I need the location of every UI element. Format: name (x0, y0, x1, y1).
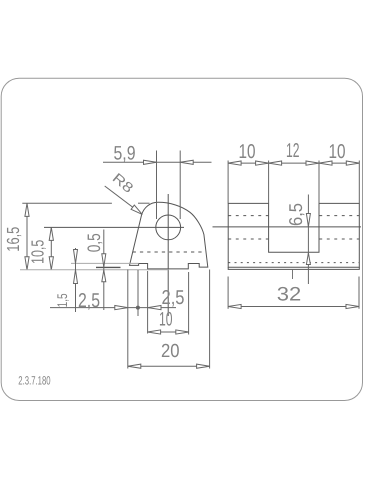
dimension 10,5 (49, 227, 53, 269)
svg-text:5,9: 5,9 (114, 142, 136, 164)
stray centerline stub (292, 270, 294, 280)
dimension 2,5 + 2,5 (50, 306, 176, 310)
leader R8 (105, 186, 143, 214)
svg-text:2,5: 2,5 (78, 290, 100, 312)
svg-text:32: 32 (277, 284, 302, 306)
svg-text:R8: R8 (110, 170, 137, 197)
side view outline (228, 203, 359, 267)
hidden dashed lines upper (228, 216, 359, 263)
dimension 1,5 (74, 248, 78, 312)
svg-text:10: 10 (329, 141, 346, 163)
svg-text:6,5: 6,5 (285, 203, 306, 226)
dimension 20 (128, 364, 210, 368)
svg-text:1,5: 1,5 (54, 293, 70, 307)
dimension 32 (228, 277, 359, 309)
side view centerline (213, 226, 362, 228)
extension lines bottom dims (128, 270, 210, 369)
dimension 5,9 (103, 151, 212, 220)
sheet border (1, 78, 362, 400)
svg-text:20: 20 (161, 341, 180, 362)
dimension 10 (front) (148, 330, 189, 334)
svg-text:10,5: 10,5 (28, 240, 48, 264)
svg-text:2.3.7.180: 2.3.7.180 (18, 374, 51, 388)
dimension 0,5 (102, 230, 106, 311)
dimension 6,5 (306, 195, 310, 285)
svg-text:0,5: 0,5 (84, 233, 104, 252)
hidden dashed line front view (133, 251, 207, 253)
svg-text:2,5: 2,5 (162, 287, 185, 309)
vertical centerline (167, 194, 169, 316)
svg-text:12: 12 (286, 140, 300, 162)
svg-text:10: 10 (159, 308, 173, 330)
svg-text:10: 10 (239, 141, 256, 163)
dimension 16,5 (22, 203, 149, 270)
svg-text:16,5: 16,5 (3, 227, 23, 252)
bottom second line (228, 267, 359, 269)
dimensions 10 12 10 (228, 161, 359, 204)
horizontal centerline (hole) (44, 226, 184, 228)
part outline (dome bracket) (130, 202, 208, 269)
hole (156, 215, 181, 240)
0,5 reference line C (96, 266, 121, 268)
bottom reference line B (20, 269, 169, 271)
notch-top reference line A (71, 262, 139, 264)
